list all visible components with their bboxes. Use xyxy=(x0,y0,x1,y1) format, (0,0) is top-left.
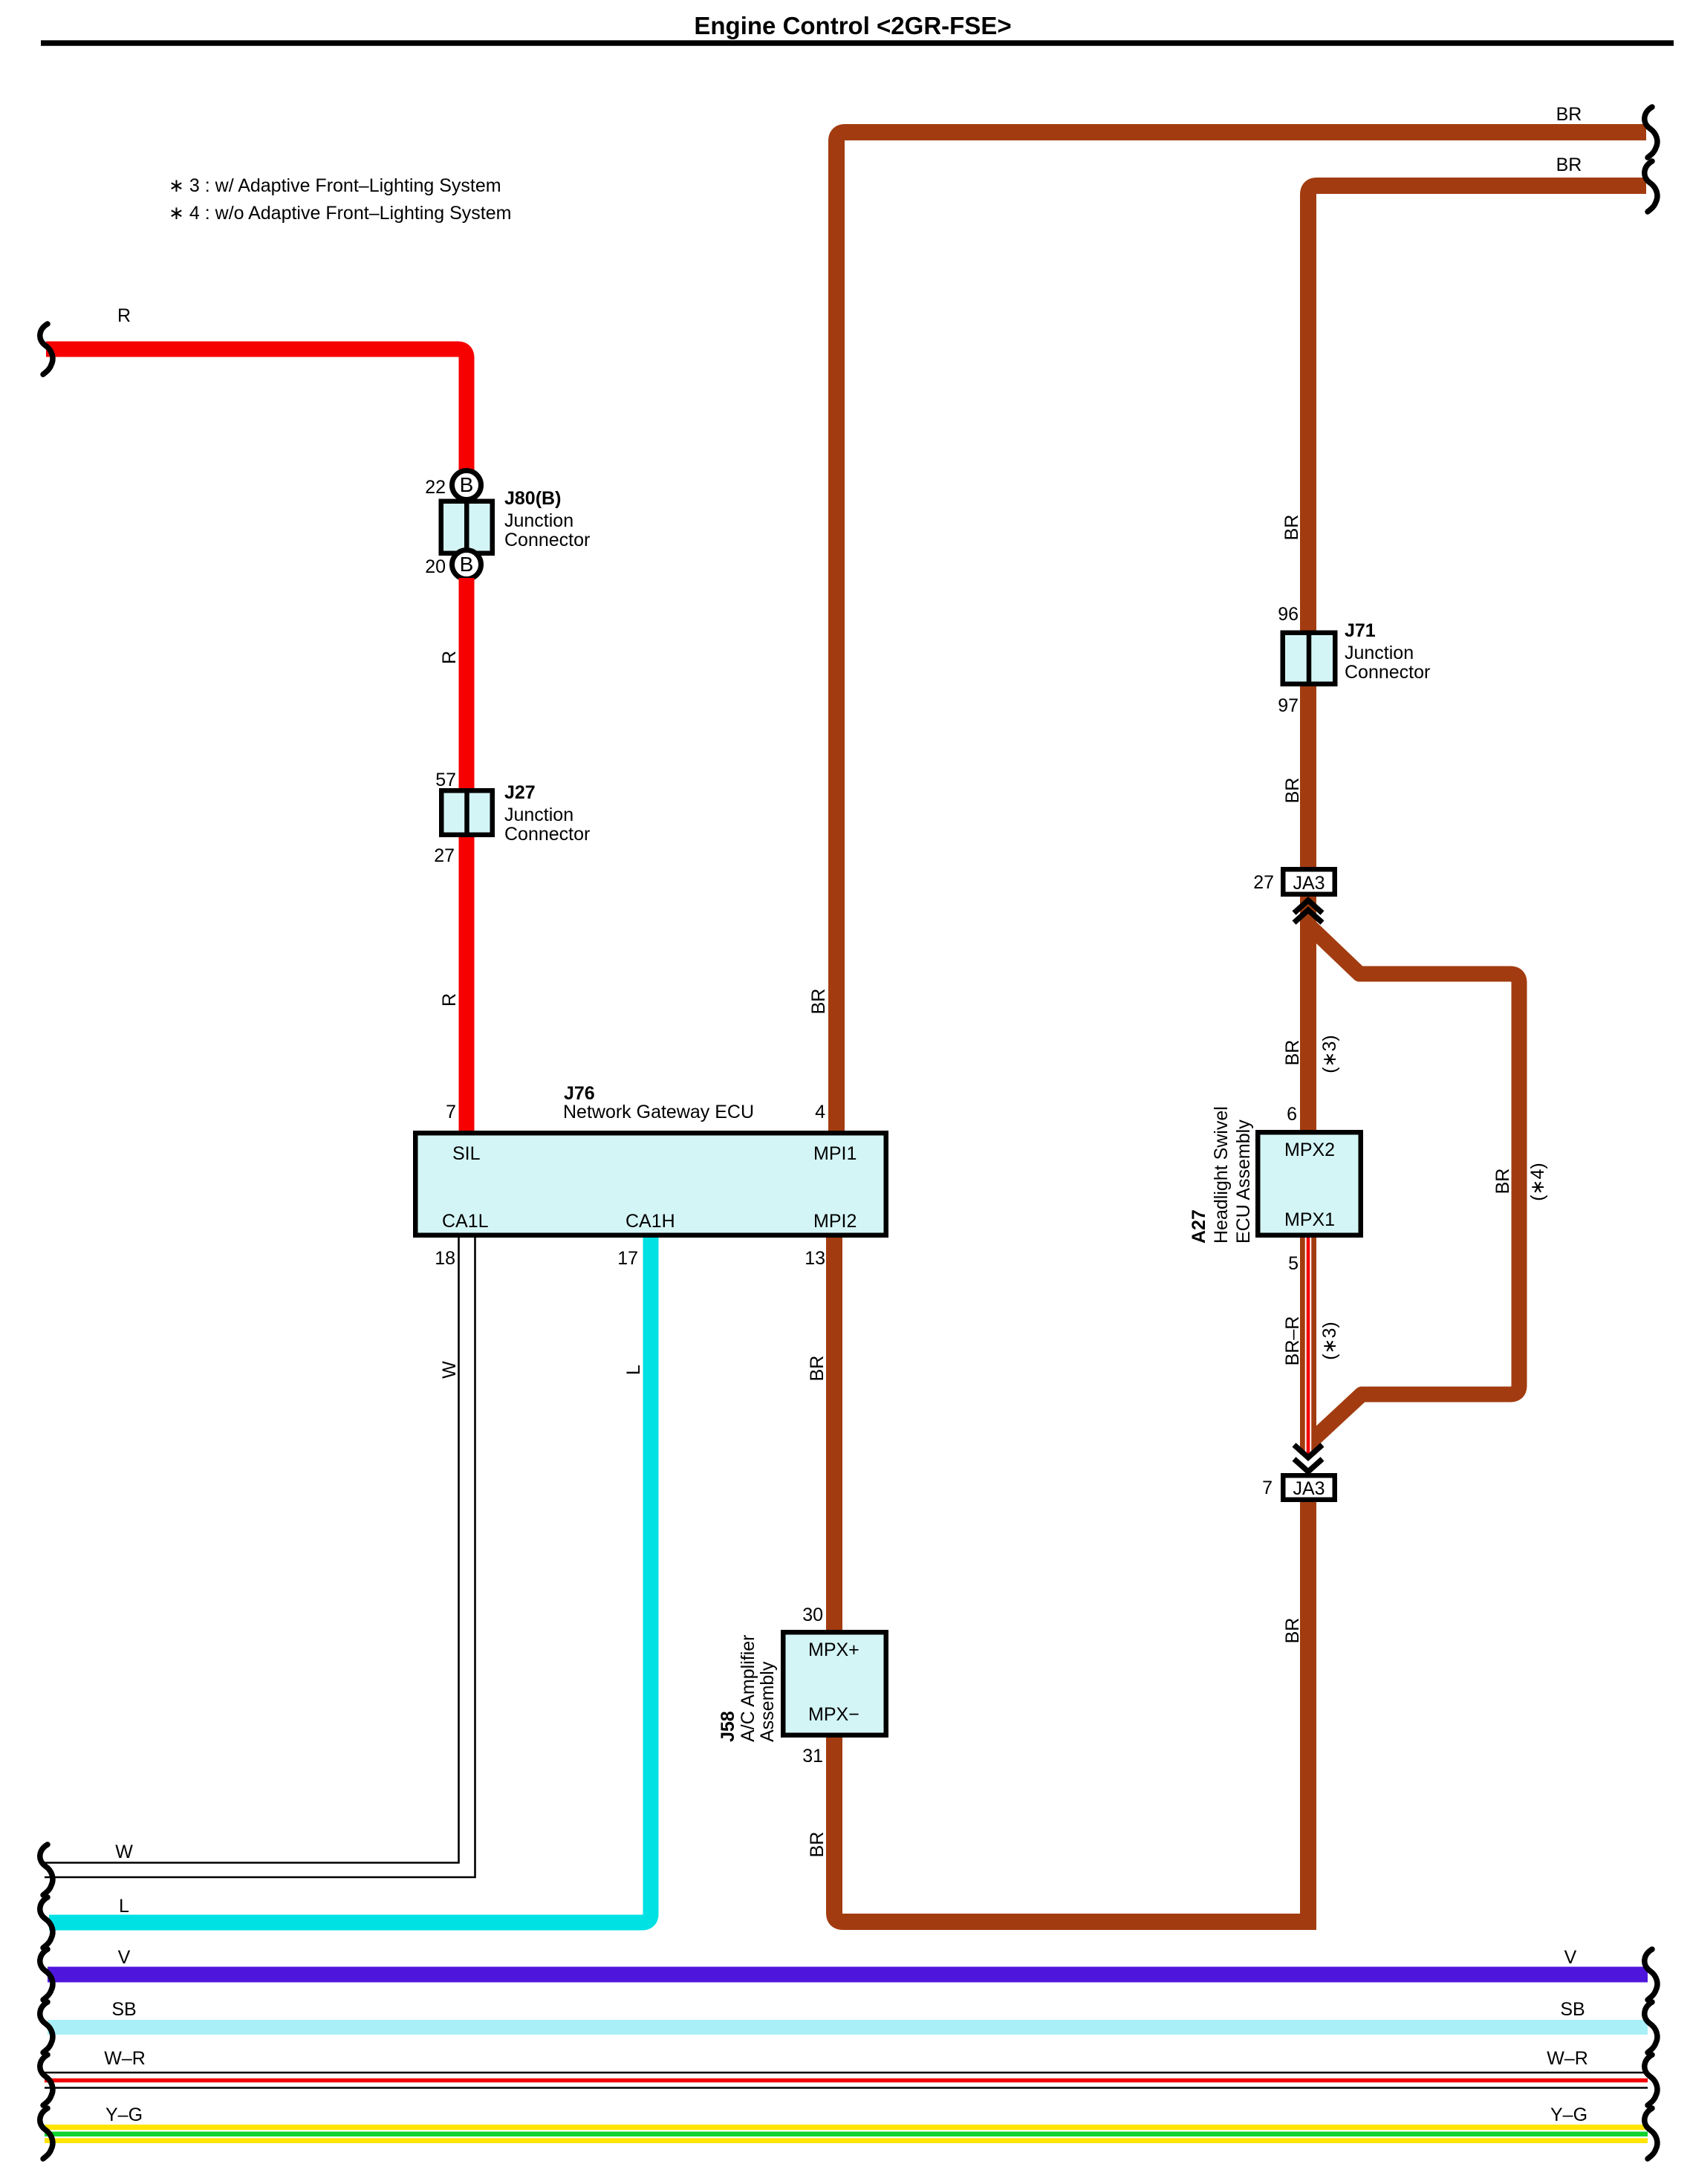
wire BR: from break at top right (2nd) left then down to J71 pin 96 xyxy=(1308,186,1646,631)
svg-text:MPI1: MPI1 xyxy=(813,1143,857,1164)
svg-text:SIL: SIL xyxy=(452,1143,481,1164)
wire W-R bus xyxy=(45,2072,1648,2074)
svg-text:Engine Control <2GR-FSE>: Engine Control <2GR-FSE> xyxy=(694,12,1011,39)
svg-text:BR: BR xyxy=(807,1356,828,1382)
svg-text:∗ 4 : w/o Adaptive Front–Light: ∗ 4 : w/o Adaptive Front–Lighting System xyxy=(169,203,511,224)
svg-text:Junction: Junction xyxy=(504,510,573,531)
junction connector J80(B): ring terminal B pin 22 xyxy=(452,471,481,500)
ECU A27 Headlight Swivel ECU Assembly box xyxy=(1258,1132,1361,1235)
svg-text:6: 6 xyxy=(1287,1104,1297,1125)
svg-text:BR: BR xyxy=(807,1832,828,1858)
svg-text:22: 22 xyxy=(425,477,446,498)
break symbols wire W-R xyxy=(40,2055,53,2105)
svg-text:Y–G: Y–G xyxy=(1550,2105,1587,2125)
svg-text:4: 4 xyxy=(815,1102,825,1122)
wire BR (*3): JA3 down to A27 pin 6 xyxy=(1300,897,1316,1130)
svg-text:CA1H: CA1H xyxy=(625,1211,675,1232)
wire BR: J76 pin 13 MPI2 down to J58 pin 30 xyxy=(826,1238,842,1630)
ECU J76 Network Gateway ECU box xyxy=(415,1133,886,1235)
svg-text:A/C Amplifier: A/C Amplifier xyxy=(738,1635,758,1742)
svg-text:R: R xyxy=(439,651,460,664)
wire BR: J71 pin 97 down to JA3 pin 27 xyxy=(1300,686,1316,867)
svg-text:R: R xyxy=(439,993,460,1007)
wire R: from left break, right then down to J80(B) pin 22 xyxy=(46,349,467,472)
svg-text:BR: BR xyxy=(1556,104,1582,125)
svg-text:Connector: Connector xyxy=(504,530,590,550)
wire BR: J76 pin 4 MPI1 up, right to break at top right xyxy=(836,132,1646,1131)
break symbols wire SB xyxy=(40,2002,53,2053)
svg-text:JA3: JA3 xyxy=(1293,873,1325,894)
junction connector J80(B) body xyxy=(441,501,493,553)
junction connector J27 body xyxy=(441,790,493,835)
svg-text:V: V xyxy=(118,1947,131,1968)
svg-text:J58: J58 xyxy=(718,1711,738,1742)
svg-text:(∗4): (∗4) xyxy=(1527,1163,1548,1201)
svg-text:W: W xyxy=(439,1361,460,1379)
svg-text:L: L xyxy=(119,1896,129,1917)
svg-text:SB: SB xyxy=(111,1999,136,2020)
svg-text:(∗3): (∗3) xyxy=(1319,1322,1340,1360)
junction arrows (double chevron up) below JA3 xyxy=(1294,900,1322,913)
break symbol right end of BR (top) xyxy=(1645,107,1657,157)
svg-text:Headlight Swivel: Headlight Swivel xyxy=(1211,1106,1232,1244)
connector JA3 (upper) box xyxy=(1283,869,1335,894)
svg-text:MPX1: MPX1 xyxy=(1284,1209,1335,1230)
wire BR (*4): branch loop right of A27 xyxy=(1309,926,1519,1443)
svg-text:27: 27 xyxy=(1253,872,1274,893)
svg-text:MPX+: MPX+ xyxy=(808,1639,859,1660)
svg-text:13: 13 xyxy=(805,1248,825,1269)
A/C Amplifier J58 box xyxy=(783,1632,886,1735)
wire BR: J58 pin 31 down then right to junction with right-side BR xyxy=(834,1738,1316,1922)
wire V bus xyxy=(48,1967,1648,1983)
svg-text:J27: J27 xyxy=(504,782,536,803)
wire SB bus xyxy=(48,2020,1648,2035)
svg-text:L: L xyxy=(623,1365,644,1375)
break symbol right end of BR (2nd) xyxy=(1645,161,1657,212)
svg-text:97: 97 xyxy=(1278,695,1299,716)
svg-text:W–R: W–R xyxy=(1547,2048,1588,2069)
svg-text:7: 7 xyxy=(446,1102,456,1122)
svg-text:Junction: Junction xyxy=(1345,643,1414,663)
svg-text:BR: BR xyxy=(1281,515,1302,541)
junction connector J80(B): ring terminal B pin 20 xyxy=(452,550,481,579)
svg-text:Assembly: Assembly xyxy=(757,1661,778,1742)
wire L: from CA1H down, left to break at left edge xyxy=(49,1238,651,1923)
svg-text:ECU Assembly: ECU Assembly xyxy=(1233,1119,1254,1244)
wire BR: JA3 pin 7 down to junction with J58 branch xyxy=(1300,1502,1316,1930)
svg-text:MPX2: MPX2 xyxy=(1284,1140,1335,1160)
svg-text:B: B xyxy=(460,553,474,576)
svg-text:27: 27 xyxy=(434,845,455,866)
svg-text:7: 7 xyxy=(1262,1478,1273,1498)
svg-text:20: 20 xyxy=(425,556,446,577)
break symbol left of wire L xyxy=(40,1897,53,1948)
break symbols wire V xyxy=(40,1949,53,2000)
svg-text:30: 30 xyxy=(802,1605,823,1625)
svg-text:96: 96 xyxy=(1278,604,1299,625)
wire W: double line from CA1L down, left to break at left edge xyxy=(45,1238,459,1863)
wire R: J27 pin 27 down to J76 pin 7 xyxy=(459,837,475,1131)
svg-text:J76: J76 xyxy=(564,1083,595,1104)
wire R: J80(B) pin 20 down to J27 pin 57 xyxy=(459,578,475,788)
title underline xyxy=(41,40,1674,46)
junction connector J71 body xyxy=(1283,633,1336,684)
svg-text:18: 18 xyxy=(435,1248,455,1269)
svg-text:Network Gateway ECU: Network Gateway ECU xyxy=(563,1102,754,1122)
svg-text:BR: BR xyxy=(1492,1169,1513,1195)
wire Y-G bus xyxy=(45,2125,1648,2143)
svg-text:B: B xyxy=(460,473,474,496)
svg-text:BR: BR xyxy=(1556,155,1582,175)
svg-text:Connector: Connector xyxy=(504,824,590,845)
svg-text:57: 57 xyxy=(435,770,456,790)
svg-text:BR: BR xyxy=(1282,1040,1303,1066)
svg-text:MPX−: MPX− xyxy=(808,1704,859,1725)
svg-text:J80(B): J80(B) xyxy=(504,488,561,509)
svg-text:R: R xyxy=(117,305,131,326)
break symbol left of wire R xyxy=(40,324,53,374)
svg-text:JA3: JA3 xyxy=(1293,1478,1325,1499)
wire BR-R (*3): A27 pin 5 down to JA3 pin 7 xyxy=(1300,1238,1316,1455)
svg-text:BR: BR xyxy=(1282,778,1303,804)
svg-text:BR: BR xyxy=(808,989,829,1015)
break symbol left of wire W xyxy=(40,1845,53,1895)
break symbols wire Y-G xyxy=(40,2108,53,2159)
svg-text:BR: BR xyxy=(1282,1618,1303,1644)
svg-text:17: 17 xyxy=(617,1248,638,1269)
svg-text:W–R: W–R xyxy=(104,2048,146,2069)
svg-text:(∗3): (∗3) xyxy=(1319,1035,1340,1073)
svg-text:Junction: Junction xyxy=(504,805,573,825)
svg-text:W: W xyxy=(115,1842,133,1862)
svg-text:SB: SB xyxy=(1560,1999,1585,2020)
svg-text:5: 5 xyxy=(1288,1253,1299,1274)
svg-text:V: V xyxy=(1564,1947,1577,1968)
svg-text:BR–R: BR–R xyxy=(1282,1316,1303,1366)
svg-text:A27: A27 xyxy=(1189,1209,1209,1244)
svg-text:31: 31 xyxy=(802,1746,823,1767)
svg-text:J71: J71 xyxy=(1345,620,1376,641)
svg-text:Y–G: Y–G xyxy=(105,2105,143,2125)
connector JA3 (lower) box xyxy=(1283,1475,1335,1500)
junction arrows (double chevron down) above lower JA3 xyxy=(1294,1445,1322,1457)
svg-text:∗ 3 : w/ Adaptive Front–Lighti: ∗ 3 : w/ Adaptive Front–Lighting System xyxy=(169,175,501,196)
svg-text:MPI2: MPI2 xyxy=(813,1211,857,1232)
svg-text:Connector: Connector xyxy=(1345,662,1430,683)
svg-text:CA1L: CA1L xyxy=(442,1211,489,1232)
